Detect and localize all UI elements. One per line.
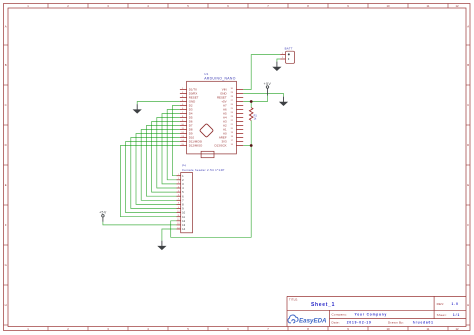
svg-text:10: 10 — [177, 211, 179, 213]
svg-text:1/1: 1/1 — [453, 313, 460, 317]
svg-text:9: 9 — [178, 207, 179, 209]
svg-text:D13/SCK: D13/SCK — [215, 144, 227, 148]
svg-text:7: 7 — [178, 199, 179, 201]
svg-text:C: C — [467, 103, 469, 107]
svg-text:EasyEDA: EasyEDA — [299, 317, 327, 324]
svg-text:A: A — [467, 25, 469, 29]
svg-text:2: 2 — [178, 178, 179, 180]
svg-text:F: F — [5, 223, 7, 227]
svg-text:Sheet:: Sheet: — [437, 313, 447, 317]
svg-text:D12/MISO: D12/MISO — [189, 144, 203, 148]
svg-text:10: 10 — [386, 4, 390, 8]
svg-text:Drawn By:: Drawn By: — [388, 321, 404, 325]
svg-text:2019-02-19: 2019-02-19 — [347, 321, 372, 325]
svg-text:4: 4 — [178, 186, 179, 188]
svg-text:G: G — [467, 263, 469, 267]
svg-text:D: D — [467, 143, 469, 147]
svg-text:Company:: Company: — [332, 312, 348, 316]
svg-text:E: E — [467, 183, 469, 187]
svg-text:A: A — [5, 25, 7, 29]
svg-text:REV:: REV: — [437, 302, 445, 306]
svg-text:ARDUINO_NANO: ARDUINO_NANO — [204, 76, 236, 80]
svg-text:13: 13 — [177, 223, 179, 225]
svg-text:+5V: +5V — [99, 211, 107, 215]
svg-text:10: 10 — [386, 327, 390, 331]
svg-text:H: H — [5, 303, 7, 307]
svg-text:E: E — [5, 183, 7, 187]
svg-text:TITLE:: TITLE: — [289, 298, 298, 302]
svg-text:1.0: 1.0 — [452, 302, 459, 306]
svg-text:Sheet_1: Sheet_1 — [311, 302, 335, 308]
svg-text:11: 11 — [182, 215, 185, 219]
svg-text:11: 11 — [177, 215, 179, 217]
svg-text:Your Company: Your Company — [355, 312, 388, 316]
svg-text:H: H — [467, 303, 469, 307]
svg-text:B: B — [467, 63, 469, 67]
svg-text:6: 6 — [178, 195, 179, 197]
svg-text:3: 3 — [178, 182, 179, 184]
svg-text:11: 11 — [427, 4, 430, 8]
svg-text:C: C — [5, 103, 7, 107]
svg-text:G: G — [5, 263, 7, 267]
svg-text:10: 10 — [182, 211, 185, 215]
svg-text:Female header 2.54 1*14P: Female header 2.54 1*14P — [182, 168, 224, 172]
svg-text:12: 12 — [455, 327, 459, 331]
svg-text:13: 13 — [182, 223, 185, 227]
svg-text:11: 11 — [427, 327, 430, 331]
svg-text:hrueda01: hrueda01 — [413, 321, 434, 325]
svg-text:1: 1 — [178, 174, 179, 176]
svg-text:5: 5 — [178, 190, 179, 192]
svg-text:12: 12 — [177, 219, 179, 221]
svg-text:14: 14 — [182, 227, 185, 231]
svg-text:D: D — [5, 143, 7, 147]
svg-text:12: 12 — [182, 219, 185, 223]
svg-text:12: 12 — [455, 4, 459, 8]
svg-text:+5V: +5V — [264, 82, 272, 86]
svg-text:F: F — [467, 223, 469, 227]
svg-text:B: B — [5, 63, 7, 67]
svg-text:8: 8 — [178, 203, 179, 205]
svg-text:BATT: BATT — [285, 46, 293, 50]
svg-text:Date:: Date: — [332, 321, 340, 325]
svg-text:14: 14 — [177, 227, 179, 229]
